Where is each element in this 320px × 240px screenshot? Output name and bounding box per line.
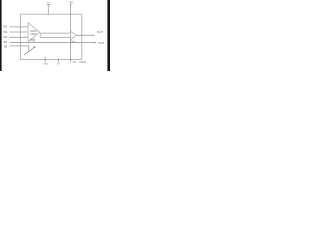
svg-text:IN2: IN2 [3, 30, 8, 34]
svg-text:SB: SB [4, 44, 8, 48]
svg-text:VS: VS [73, 62, 77, 64]
svg-text:PC: PC [70, 2, 74, 5]
svg-text:IN4: IN4 [3, 40, 8, 44]
svg-text:STBY: STBY [30, 41, 36, 43]
svg-text:OUT: OUT [98, 41, 104, 45]
svg-text:OUT: OUT [97, 30, 104, 34]
svg-text:IN3: IN3 [3, 35, 8, 39]
svg-text:GND: GND [44, 64, 49, 66]
svg-text:IN1: IN1 [3, 25, 8, 29]
svg-text:AM03: AM03 [79, 60, 86, 64]
svg-text:AMP1: AMP1 [30, 32, 38, 36]
